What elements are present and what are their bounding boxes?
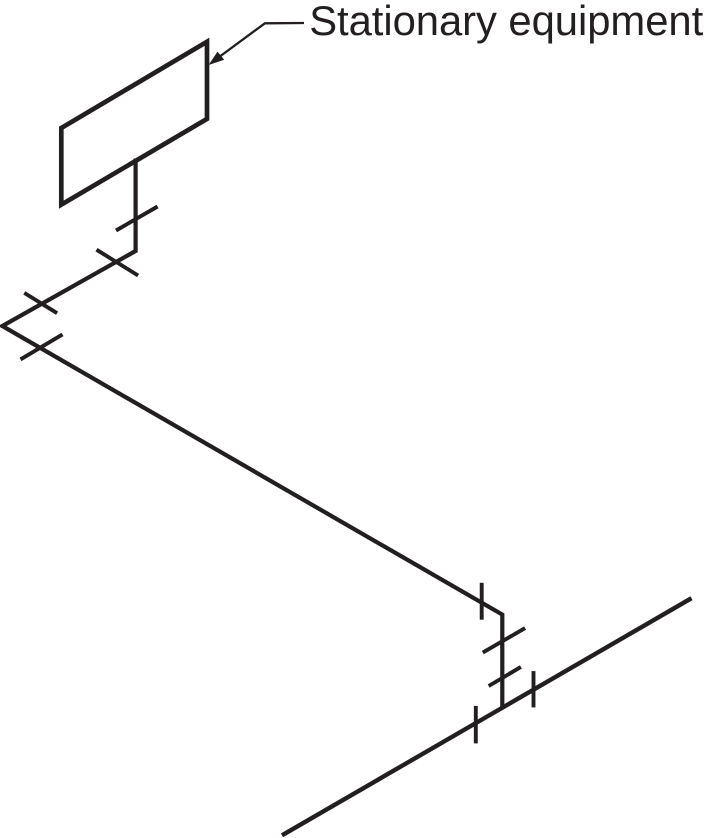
svg-text:Stationary equipment: Stationary equipment bbox=[309, 0, 703, 44]
